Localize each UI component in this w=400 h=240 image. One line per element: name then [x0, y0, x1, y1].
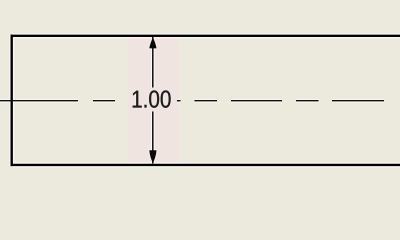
dimension arrowhead bottom [149, 150, 156, 163]
centerline dash 1 [0, 100, 78, 102]
centerline dash 3 (tick after text) [177, 100, 181, 102]
dimension arrowhead top [149, 37, 156, 48]
centerline dash 6 [296, 100, 319, 102]
light halo layer around all drawn lines (rendering glow) [0, 35, 400, 167]
centerline dash 4 [195, 100, 218, 102]
dimension line lower segment [152, 112, 154, 164]
dimension text 1.00 [133, 90, 171, 107]
centerline dash 7 [332, 100, 384, 102]
centerline dash 5 [231, 100, 282, 102]
centerline dash 2 [93, 100, 115, 102]
dimension line upper segment [152, 37, 154, 88]
highlighted extent band [128, 37, 179, 165]
rectangle top edge [11, 35, 400, 37]
rectangle bottom edge [11, 164, 400, 166]
rectangle left edge [10, 35, 12, 167]
